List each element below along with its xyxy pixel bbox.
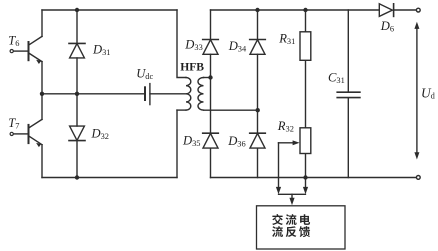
transistor T6 xyxy=(10,36,42,64)
feedback tap from R32 bottom rail xyxy=(305,178,307,189)
feedback arrow right xyxy=(303,187,308,194)
diode D32 xyxy=(69,126,85,141)
node D34 top rail xyxy=(255,8,259,12)
wire secondary top lead xyxy=(204,77,211,79)
capacitor C31 xyxy=(337,92,360,97)
transformer HFB secondary winding xyxy=(198,78,204,111)
wire midpoint to capacitor xyxy=(42,93,145,95)
wire left loop right side upper (to primary top) xyxy=(177,10,186,78)
diode D31 xyxy=(69,43,85,58)
feedback bus wire xyxy=(279,193,306,195)
wire left bus lower (T7 emitter lead) xyxy=(41,145,43,178)
capacitor Udc xyxy=(145,84,150,105)
diode D33 xyxy=(203,40,219,55)
wire capacitor to transformer center tap xyxy=(150,93,186,95)
text 反 (feedback box line 2) xyxy=(286,226,297,237)
feedback stub arrowhead xyxy=(289,198,294,205)
terminal bottom right xyxy=(416,176,420,180)
text 馈 (feedback box line 2) xyxy=(299,226,310,237)
Ud voltage arrow xyxy=(414,22,419,160)
resistor R31 xyxy=(300,32,311,61)
feedback arrow left xyxy=(276,187,281,194)
node R31 top rail xyxy=(303,8,307,12)
diode D36 xyxy=(250,133,266,148)
node top rail D31 xyxy=(75,8,79,12)
wire C31 branch xyxy=(347,10,349,178)
wire left loop right side lower (from primary bottom) xyxy=(176,110,178,177)
node secondary bottom D34 D36 xyxy=(256,108,260,112)
feedback stub into box xyxy=(291,194,293,198)
wire left bus upper (T6 collector lead) xyxy=(41,10,43,36)
wire D33 D35 branch xyxy=(210,10,212,178)
wire D34 D36 branch xyxy=(257,10,259,178)
diode D34 xyxy=(250,40,266,55)
feedback box xyxy=(257,206,346,249)
wire R31 R32 branch xyxy=(305,10,307,178)
wire top rail left xyxy=(42,9,177,11)
svg-text:HFB: HFB xyxy=(180,60,204,73)
node transistor midpoint xyxy=(40,92,44,96)
wire D31 anode to D32 chain xyxy=(76,10,78,178)
diode D6 xyxy=(379,4,393,17)
node secondary top D33 D35 xyxy=(208,75,212,79)
resistor R32 (potentiometer) xyxy=(300,128,311,154)
transistor T7 xyxy=(10,119,42,147)
wire secondary bottom lead xyxy=(204,109,258,111)
diode D35 xyxy=(203,133,219,148)
wire bottom rail right xyxy=(211,177,417,179)
wire primary bottom lead xyxy=(177,109,186,111)
text 交 (feedback box line 1) xyxy=(272,214,283,225)
text 流 (feedback box line 1) xyxy=(286,214,297,225)
R32 wiper arrow xyxy=(279,140,300,188)
wire left bus middle (T6 emitter to T7 collector) xyxy=(41,62,43,120)
text 流 (feedback box line 2) xyxy=(272,226,283,237)
wire top rail right xyxy=(211,9,417,11)
node R32 bottom rail xyxy=(303,175,307,179)
terminal top right xyxy=(416,8,420,12)
wire bottom rail left xyxy=(42,177,177,179)
transformer HFB primary winding xyxy=(186,78,191,111)
text 电 (feedback box line 1) xyxy=(300,214,310,225)
node D32 bottom rail xyxy=(75,175,79,179)
node D31 D32 junction xyxy=(75,92,79,96)
